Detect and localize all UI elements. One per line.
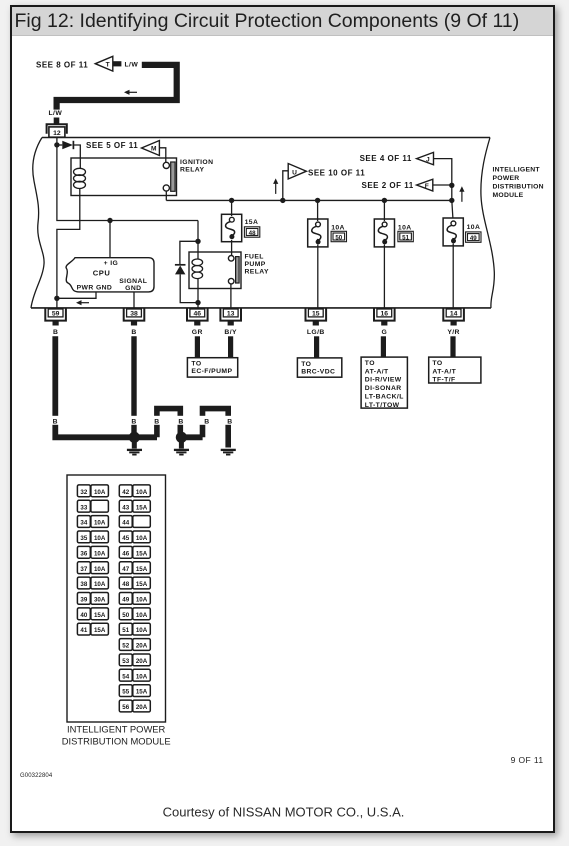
svg-text:10A: 10A	[136, 597, 148, 604]
svg-text:15A: 15A	[245, 219, 259, 226]
svg-text:36: 36	[80, 550, 87, 557]
svg-text:SIGNAL: SIGNAL	[119, 278, 147, 285]
svg-text:51: 51	[122, 627, 129, 634]
fuse table row 54 10A	[119, 669, 150, 681]
module name text	[493, 167, 544, 200]
current arrow near pwr gnd	[80, 302, 89, 304]
connector 38	[124, 308, 145, 325]
svg-text:POWER: POWER	[493, 175, 520, 182]
svg-text:20A: 20A	[136, 704, 148, 711]
svg-text:15A: 15A	[136, 550, 148, 557]
thick wire G to AT box	[381, 336, 386, 357]
svg-text:DISTRIBUTION: DISTRIBUTION	[493, 184, 544, 191]
current arrow near F branch	[461, 190, 463, 202]
svg-text:38: 38	[80, 581, 87, 588]
svg-text:9 OF 11: 9 OF 11	[511, 755, 544, 765]
fuel pump relay coil	[192, 259, 203, 279]
svg-text:15A: 15A	[136, 689, 148, 696]
svg-text:J: J	[426, 157, 430, 164]
svg-text:33: 33	[80, 504, 87, 511]
connector 12 stub	[54, 118, 60, 125]
fuse table row 51 10A	[119, 623, 150, 635]
svg-text:10A: 10A	[467, 224, 481, 231]
svg-text:G00322804: G00322804	[20, 773, 53, 779]
ground symbol 1	[127, 442, 142, 455]
svg-text:+ IG: + IG	[104, 260, 119, 267]
svg-text:TO: TO	[191, 361, 201, 368]
svg-text:10A: 10A	[94, 489, 106, 496]
wire to diode D1	[57, 144, 62, 146]
connector 13	[220, 308, 241, 325]
intelligent power distribution module top edge	[42, 137, 490, 139]
thick stub after T	[113, 61, 121, 66]
wire fuse 49 to connector 14	[452, 243, 454, 308]
svg-text:34: 34	[80, 520, 87, 527]
svg-text:DI-SONAR: DI-SONAR	[365, 385, 402, 392]
fuse table caption	[62, 724, 171, 747]
fuse 49 10A	[443, 218, 463, 246]
svg-text:B/Y: B/Y	[224, 329, 237, 336]
svg-text:49: 49	[122, 597, 129, 604]
svg-text:10A: 10A	[94, 550, 106, 557]
junction nodes on bus	[229, 198, 234, 203]
to AT-A/T TF-T/F box	[429, 357, 481, 383]
svg-text:43: 43	[122, 504, 129, 511]
module torn left edge	[31, 138, 44, 308]
svg-text:59: 59	[52, 310, 60, 317]
svg-text:39: 39	[80, 597, 87, 604]
fuse table box	[67, 475, 166, 722]
fuse 50 10A	[308, 219, 328, 247]
diode D2	[175, 265, 186, 275]
fuse table row 45 10A	[119, 531, 150, 543]
fuse table row 33 spare	[77, 500, 108, 512]
hat jumper 1	[157, 409, 180, 438]
thick wire GR to EC-F/PUMP	[195, 336, 200, 357]
svg-text:L/W: L/W	[125, 62, 139, 69]
svg-text:35: 35	[80, 535, 87, 542]
svg-text:LT-T/TOW: LT-T/TOW	[365, 402, 400, 409]
svg-text:AT-A/T: AT-A/T	[365, 368, 389, 375]
svg-text:B: B	[53, 419, 58, 426]
svg-text:48: 48	[122, 581, 129, 588]
svg-text:SEE 8 OF 11: SEE 8 OF 11	[36, 60, 88, 69]
ground junction ball 1	[129, 432, 140, 443]
fuse table row 48 15A	[119, 577, 150, 589]
connector 59	[45, 308, 66, 325]
svg-text:45: 45	[122, 535, 129, 542]
svg-text:46: 46	[194, 310, 202, 317]
current arrow near U branch	[275, 182, 277, 194]
svg-text:INTELLIGENT POWER: INTELLIGENT POWER	[67, 724, 166, 735]
wire labels B on ground legs	[52, 416, 233, 426]
svg-text:15A: 15A	[94, 612, 106, 619]
wire fuel pump relay coil to connector 46	[197, 279, 199, 308]
junction node at diode branch	[54, 142, 59, 147]
junction node pwr gnd	[54, 296, 59, 301]
svg-text:15A: 15A	[94, 627, 106, 634]
wire diode D2 to coil return	[180, 274, 198, 302]
svg-text:G: G	[381, 329, 387, 336]
wire ignition relay contact to bus	[165, 191, 167, 200]
svg-text:10A: 10A	[136, 535, 148, 542]
fuel pump relay box	[189, 252, 241, 289]
svg-text:55: 55	[122, 689, 129, 696]
svg-text:10A: 10A	[94, 581, 106, 588]
thick wire connector 38 to ground rail	[131, 336, 136, 437]
svg-text:53: 53	[122, 658, 129, 665]
fuse table row 55 15A	[119, 685, 150, 697]
svg-text:54: 54	[122, 673, 129, 680]
ground rail segment to hat 1	[131, 434, 157, 440]
wire bus to fuse 48	[231, 200, 233, 216]
svg-text:10A: 10A	[94, 520, 106, 527]
wire bus to fuse 50	[317, 200, 319, 221]
svg-text:56: 56	[122, 704, 129, 711]
thick wire connector 59 to ground rail	[55, 336, 131, 437]
junction node coil return	[195, 300, 200, 305]
wire bus to fuse 51	[383, 200, 385, 221]
thick wire LG/B to BRC-VDC	[314, 336, 319, 358]
title bar	[12, 7, 553, 36]
svg-text:B: B	[131, 419, 136, 426]
wire from bus to U pointer	[283, 171, 288, 201]
cpu text	[77, 260, 148, 292]
fuse number 51	[398, 231, 413, 241]
wire fuse 51 to connector 16	[383, 244, 385, 308]
svg-text:LG/B: LG/B	[307, 329, 325, 336]
svg-text:M: M	[151, 146, 157, 153]
svg-text:Courtesy of NISSAN MOTOR CO.,: Courtesy of NISSAN MOTOR CO., U.S.A.	[163, 805, 405, 820]
connector 12	[47, 124, 67, 134]
svg-text:40: 40	[80, 612, 87, 619]
svg-text:10A: 10A	[398, 224, 412, 231]
svg-text:46: 46	[122, 550, 129, 557]
fuse table row 38 10A	[77, 577, 108, 589]
fuse table row 41 15A	[77, 623, 108, 635]
svg-text:14: 14	[450, 310, 458, 317]
fuse number 50	[331, 231, 346, 241]
svg-text:10A: 10A	[136, 673, 148, 680]
svg-text:SEE 5 OF 11: SEE 5 OF 11	[86, 141, 138, 150]
svg-text:AT-A/T: AT-A/T	[432, 368, 456, 375]
fuse table row 43 15A	[119, 500, 150, 512]
svg-text:13: 13	[227, 310, 235, 317]
fuse table row 34 10A	[77, 516, 108, 528]
wire fuse 48 to fuel pump relay contact	[231, 240, 233, 256]
fuse table row 46 15A	[119, 546, 150, 558]
svg-text:TO: TO	[432, 360, 442, 367]
svg-text:44: 44	[122, 520, 129, 527]
fuse table row 36 10A	[77, 546, 108, 558]
svg-text:TO: TO	[301, 361, 311, 368]
svg-text:52: 52	[122, 643, 129, 650]
svg-text:BRC-VDC: BRC-VDC	[301, 368, 335, 375]
wire from M to ignition relay contact	[159, 148, 165, 162]
thick wire B/Y to EC-F/PUMP	[228, 336, 233, 357]
triangle F	[417, 179, 433, 191]
wire feed down to fuel pump relay coil	[197, 221, 199, 260]
ignition relay box	[71, 158, 177, 196]
fuse table row 44 spare	[119, 516, 150, 528]
svg-text:SEE 2 OF 11: SEE 2 OF 11	[362, 181, 414, 190]
ignition relay contact	[163, 162, 175, 191]
hat jumper 2	[203, 409, 229, 448]
svg-text:SEE 10 OF 11: SEE 10 OF 11	[308, 168, 365, 177]
cpu +ig wire	[109, 221, 111, 258]
svg-text:INTELLIGENT: INTELLIGENT	[493, 167, 541, 174]
fuel pump relay contact	[228, 255, 239, 284]
fuse table row 42 10A	[119, 485, 150, 497]
to EC-F/PUMP box	[187, 358, 237, 377]
svg-text:EC-F/PUMP: EC-F/PUMP	[191, 368, 232, 375]
svg-text:B: B	[131, 329, 136, 336]
fuse table row 32 10A	[77, 485, 108, 497]
junction node at cpu +IG branch	[107, 218, 112, 223]
svg-text:10A: 10A	[136, 627, 148, 634]
svg-text:U: U	[292, 169, 297, 176]
svg-text:GND: GND	[125, 285, 141, 292]
svg-text:GR: GR	[192, 329, 203, 336]
cpu box	[66, 258, 154, 292]
wire cpu pwr gnd to rail	[57, 292, 96, 298]
svg-text:IGNITION: IGNITION	[180, 159, 213, 166]
svg-text:TO: TO	[365, 360, 375, 367]
fuse number 49	[466, 232, 481, 242]
svg-text:CPU: CPU	[93, 269, 111, 278]
wire bus to fuse 49	[452, 200, 453, 218]
svg-text:15A: 15A	[136, 581, 148, 588]
svg-text:50: 50	[122, 612, 129, 619]
module torn right edge	[481, 138, 494, 308]
svg-text:10A: 10A	[136, 612, 148, 619]
triangle T	[95, 56, 113, 71]
svg-text:49: 49	[470, 235, 477, 242]
svg-text:SEE 4 OF 11: SEE 4 OF 11	[360, 154, 412, 163]
wire from connector 12 down and right to fuel pump relay coil	[57, 137, 198, 221]
main bus wire	[166, 199, 452, 201]
connector 15	[306, 308, 327, 325]
wire to diode D2	[180, 241, 198, 264]
svg-text:37: 37	[80, 566, 87, 573]
svg-text:51: 51	[402, 234, 409, 241]
triangle M	[142, 141, 160, 156]
connector 16	[374, 308, 395, 325]
ignition relay coil	[74, 158, 86, 196]
wire ignition relay coil to pwr gnd rail	[57, 196, 80, 308]
svg-text:T: T	[106, 62, 110, 69]
junction node diode branch	[195, 239, 200, 244]
wire fuse 50 to connector 15	[317, 244, 319, 308]
svg-text:B: B	[53, 329, 58, 336]
fuse table row 35 10A	[77, 531, 108, 543]
fuse table row 39 30A	[77, 593, 108, 605]
svg-text:B: B	[227, 419, 232, 426]
wire from F to bus branch	[433, 184, 452, 186]
fuse number 48	[244, 227, 259, 237]
svg-text:PUMP: PUMP	[245, 261, 266, 268]
svg-text:DISTRIBUTION MODULE: DISTRIBUTION MODULE	[62, 735, 171, 746]
svg-text:10A: 10A	[331, 224, 345, 231]
svg-text:PWR GND: PWR GND	[77, 285, 113, 292]
thick feed wire from T to connector 12	[57, 65, 177, 110]
svg-text:15: 15	[312, 310, 320, 317]
fuse table row 47 15A	[119, 562, 150, 574]
triangle J	[417, 152, 434, 164]
svg-text:B: B	[154, 419, 159, 426]
svg-text:DI-R/VIEW: DI-R/VIEW	[365, 377, 402, 384]
diode D1	[62, 141, 73, 149]
connector 14	[443, 308, 464, 325]
svg-text:32: 32	[80, 489, 87, 496]
svg-text:Y/R: Y/R	[447, 329, 460, 336]
fuse table row 49 10A	[119, 593, 150, 605]
ground symbol 3	[221, 450, 236, 455]
fuse table row 52 20A	[119, 639, 150, 651]
wire cpu signal gnd to connector 38	[133, 292, 135, 308]
wire from J to bus	[434, 159, 452, 201]
fuse 51 10A	[374, 219, 394, 247]
svg-text:38: 38	[130, 310, 138, 317]
fuse 48 15A	[222, 214, 242, 241]
fuel pump relay label	[245, 254, 269, 276]
current arrow on feed wire	[128, 91, 137, 93]
fuse table row 37 10A	[77, 562, 108, 574]
svg-text:B: B	[178, 419, 183, 426]
triangle U	[288, 164, 306, 180]
svg-text:20A: 20A	[136, 658, 148, 665]
thick wire Y/R to AT box	[450, 336, 455, 357]
connector 46	[187, 308, 208, 325]
ground symbol 2	[174, 442, 189, 455]
wire from diode to ignition relay coil	[73, 145, 80, 159]
ignition relay label	[180, 159, 213, 173]
module bottom edge	[31, 307, 491, 309]
svg-text:10A: 10A	[94, 566, 106, 573]
to AT-A/T DI-R/VIEW box	[361, 357, 407, 408]
ground junction ball 2	[176, 432, 187, 443]
wire fuel pump relay contact to connector 13	[230, 284, 232, 308]
svg-text:50: 50	[335, 234, 342, 241]
svg-text:RELAY: RELAY	[245, 268, 269, 275]
junction node F	[449, 183, 454, 188]
svg-text:20A: 20A	[136, 643, 148, 650]
fuse table row 56 20A	[119, 700, 150, 712]
svg-text:10A: 10A	[136, 489, 148, 496]
svg-text:F: F	[425, 183, 429, 190]
svg-text:15A: 15A	[136, 504, 148, 511]
svg-text:42: 42	[122, 489, 129, 496]
svg-text:30A: 30A	[94, 597, 106, 604]
fuse table row 53 20A	[119, 654, 150, 666]
svg-text:48: 48	[249, 230, 256, 237]
svg-text:RELAY: RELAY	[180, 167, 204, 174]
svg-text:FUEL: FUEL	[245, 254, 264, 261]
ground rail segment to hat 2	[181, 434, 202, 440]
svg-text:L/W: L/W	[49, 110, 63, 117]
svg-text:16: 16	[381, 310, 389, 317]
fuse table row 50 10A	[119, 608, 150, 620]
svg-text:MODULE: MODULE	[493, 192, 524, 199]
svg-text:41: 41	[80, 627, 87, 634]
svg-text:15A: 15A	[136, 566, 148, 573]
to BRC-VDC box	[297, 358, 341, 377]
svg-text:10A: 10A	[94, 535, 106, 542]
svg-text:LT-BACK/L: LT-BACK/L	[365, 394, 404, 401]
svg-text:TF-T/F: TF-T/F	[432, 377, 455, 384]
svg-text:B: B	[204, 419, 209, 426]
svg-text:47: 47	[122, 566, 129, 573]
svg-text:12: 12	[53, 130, 61, 137]
fuse table row 40 15A	[77, 608, 108, 620]
